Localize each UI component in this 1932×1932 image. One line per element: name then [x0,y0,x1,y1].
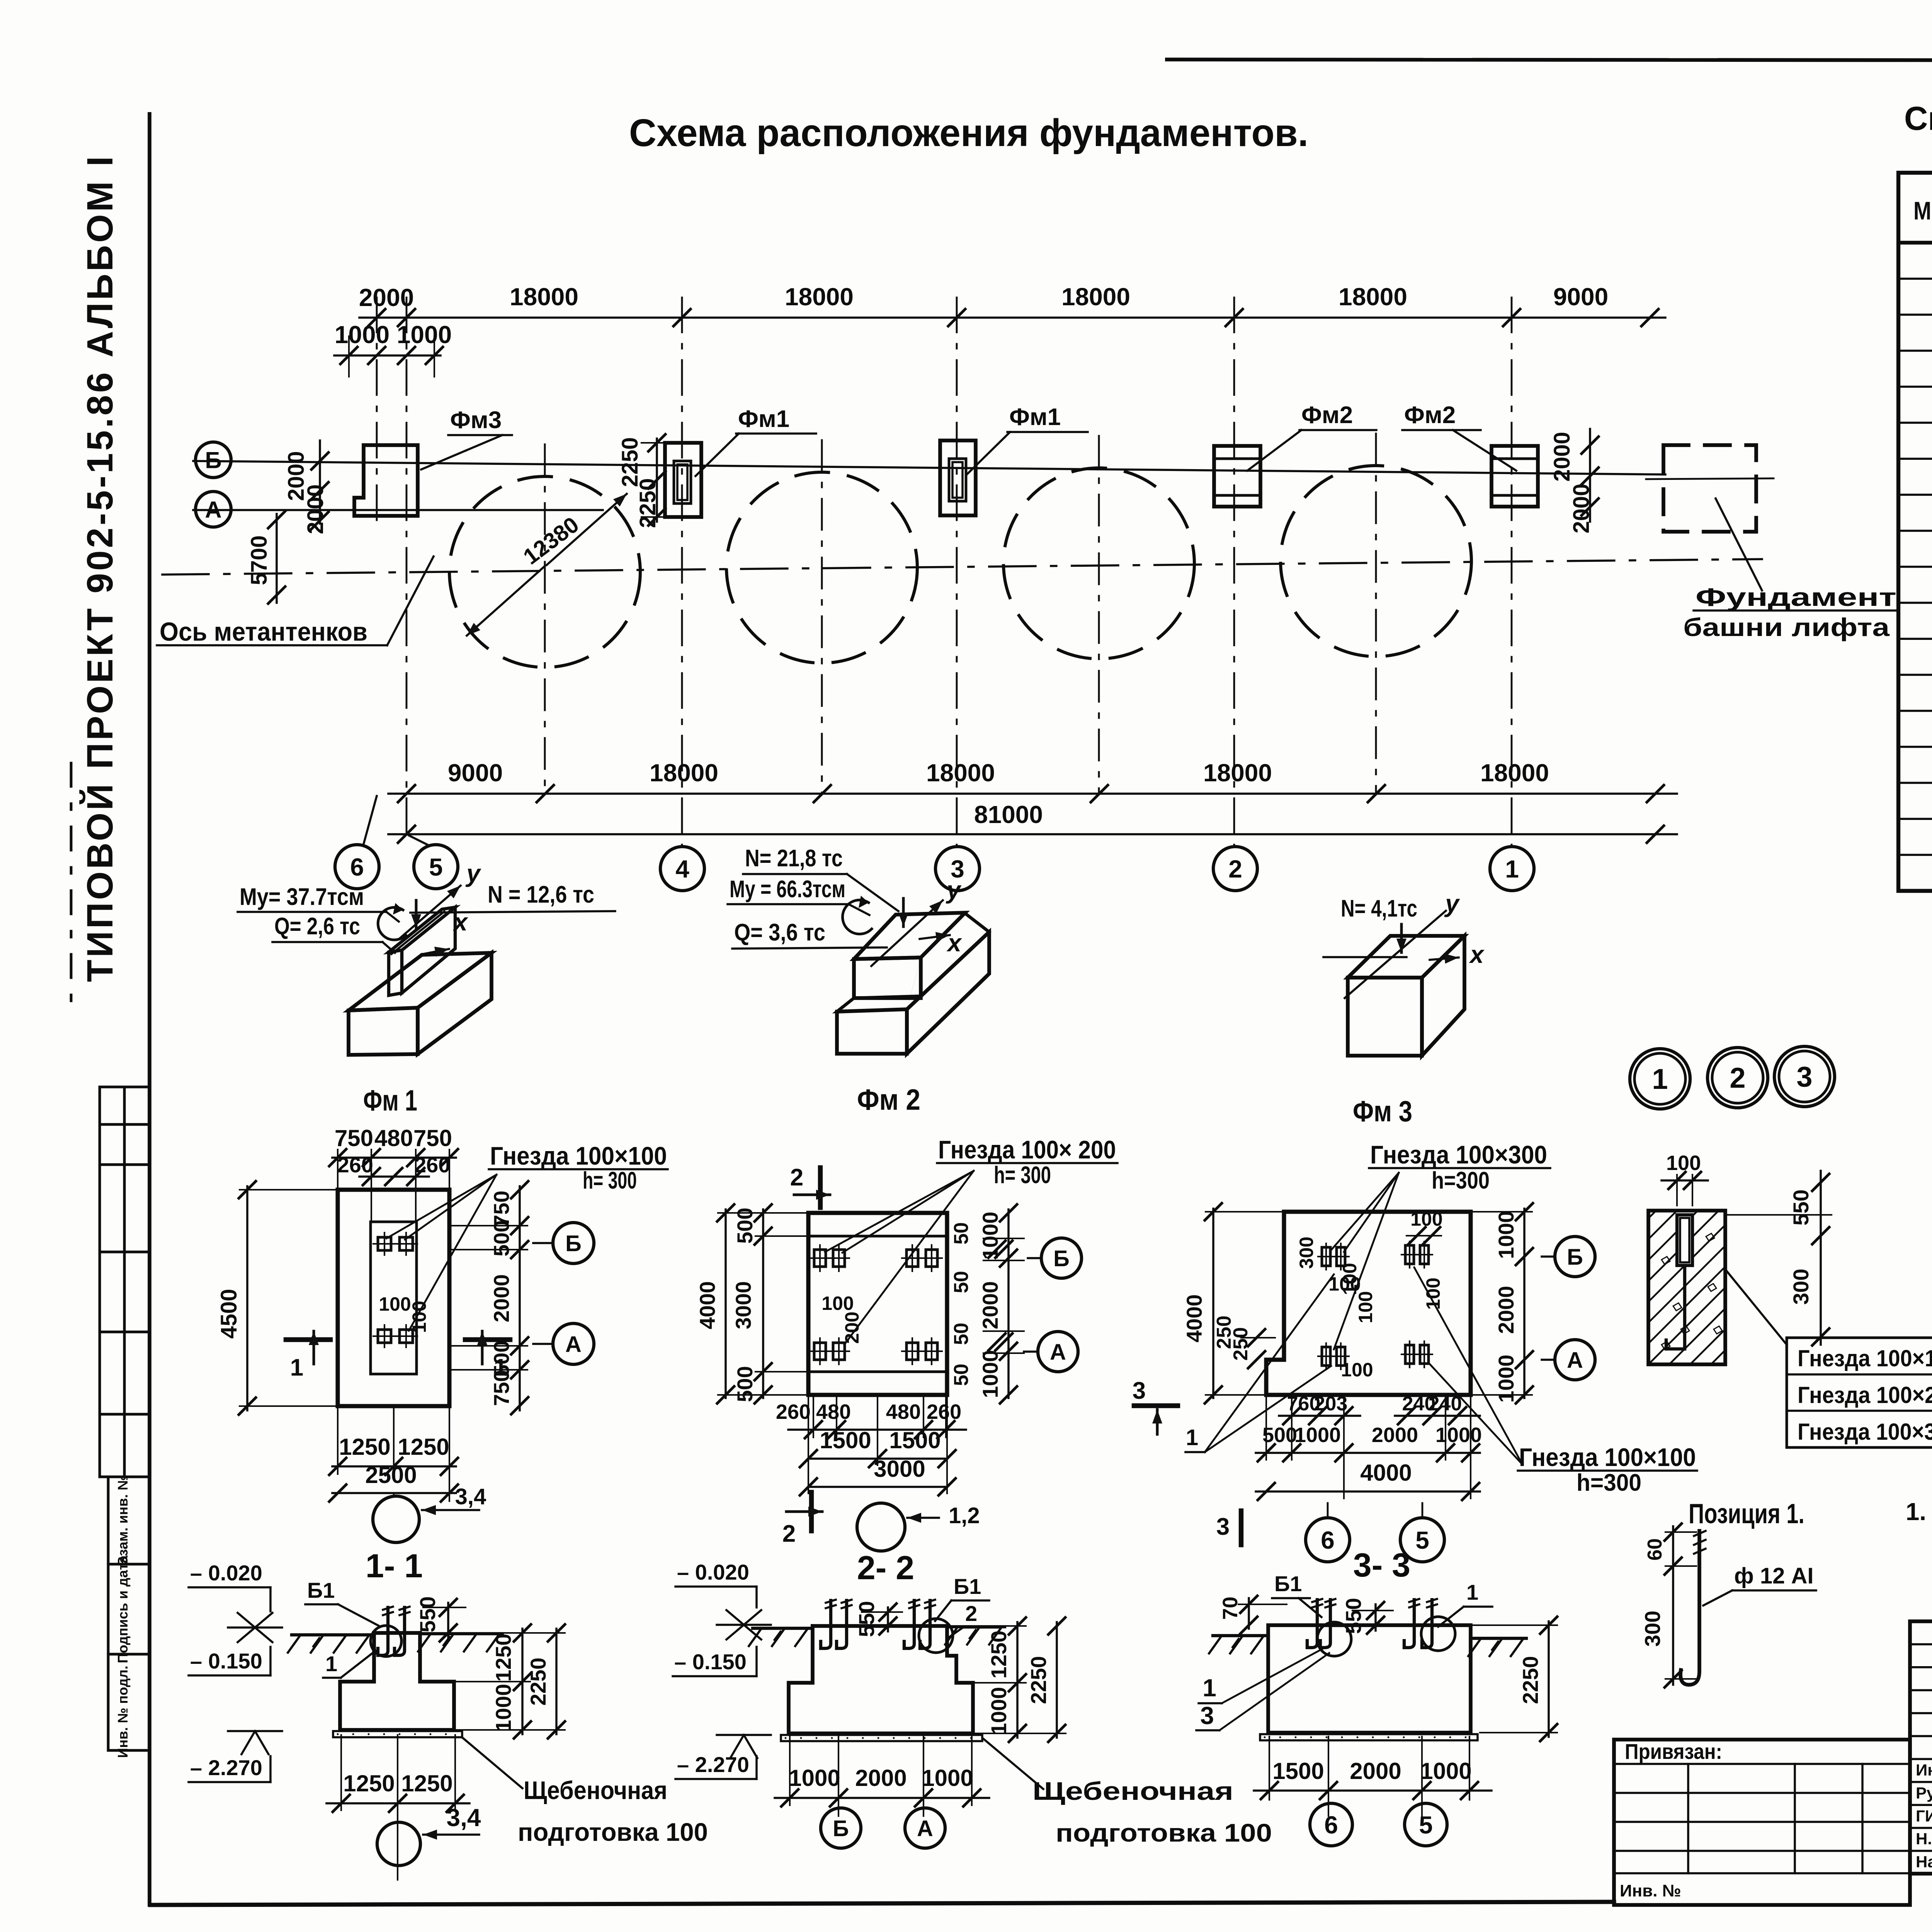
svg-text:1250: 1250 [491,1634,515,1682]
svg-text:750: 750 [413,1125,452,1151]
Fm1 bottom circle [373,1496,419,1543]
foundation Fm1 plan symbol 2 [940,440,976,515]
svg-text:1500: 1500 [820,1427,871,1453]
svg-text:18000: 18000 [1480,759,1549,787]
svg-text:Гнезда 100×100: Гнезда 100×100 [490,1141,667,1170]
isometric Fm2 stepped block [837,1009,907,1054]
svg-text:3: 3 [1216,1514,1230,1540]
svg-text:1000: 1000 [1494,1211,1518,1259]
svg-text:x: x [1469,940,1485,968]
svg-text:Фм1: Фм1 [1009,404,1061,430]
svg-text:2: 2 [965,1601,977,1626]
svg-text:2500: 2500 [365,1462,417,1488]
svg-text:– 0.020: – 0.020 [677,1560,749,1584]
svg-text:подготовка 100: подготовка 100 [518,1818,708,1846]
svg-text:– 0.150: – 0.150 [190,1649,262,1673]
section 2-2 bottom dims [789,1736,791,1805]
svg-text:1000: 1000 [922,1765,973,1791]
svg-text:А: А [917,1816,933,1841]
svg-text:Гнезда 100×300 h= 300 для 3 уз: Гнезда 100×300 h= 300 для 3 узла [1798,1419,1932,1445]
svg-text:Гнезда 100×300: Гнезда 100×300 [1370,1140,1547,1169]
svg-text:Б: Б [565,1231,582,1256]
svg-text:Гнезда 100×200 h=300 для 2 узл: Гнезда 100×200 h=300 для 2 узла [1798,1382,1932,1408]
section 3-3 bottom dims [1269,1736,1270,1800]
privyazan table [1614,1740,1910,1905]
section 3-3 axis circles [1310,1803,1352,1846]
svg-text:480: 480 [816,1400,851,1423]
svg-text:Щебеночная: Щебеночная [1032,1777,1233,1805]
svg-text:100: 100 [379,1293,411,1315]
Fm2 bottom dims [813,1395,814,1437]
section 1-1 node circle [377,1822,420,1866]
svg-text:Спецификация к схеме распол: Спецификация к схеме расположения фундам… [1904,100,1932,137]
section 3-3 foundation [1268,1625,1471,1733]
svg-text:1000: 1000 [1435,1423,1482,1447]
svg-text:Позиция 1.: Позиция 1. [1689,1498,1804,1529]
axis circle 5 [414,845,458,889]
svg-text:1250: 1250 [401,1770,452,1796]
svg-text:Подпись и дата: Подпись и дата [115,1555,131,1663]
Fm3 detail bolts [1322,1247,1330,1266]
svg-text:– 2.270: – 2.270 [190,1755,262,1780]
svg-text:5: 5 [1419,1811,1433,1839]
svg-text:1000: 1000 [978,1212,1002,1260]
svg-text:1: 1 [1652,1063,1668,1095]
svg-text:260: 260 [337,1153,373,1177]
hook dims [1665,1531,1696,1533]
svg-text:2: 2 [1228,855,1242,883]
svg-text:подготовка 100: подготовка 100 [1056,1818,1272,1847]
svg-text:60: 60 [1644,1538,1666,1561]
section 3-3 detail circles [1317,1622,1351,1656]
svg-text:100: 100 [1355,1291,1376,1323]
pos1 hatched concrete block [1648,1211,1725,1364]
svg-text:1: 1 [1505,855,1519,883]
svg-text:1: 1 [325,1651,337,1676]
svg-text:50: 50 [950,1323,973,1345]
isometric Fm1 base box [349,1008,418,1055]
svg-text:100: 100 [1422,1277,1444,1310]
Fm2 bottom circle [857,1503,905,1551]
Fm3 right dim chain [1523,1209,1526,1398]
svg-text:4000: 4000 [695,1281,719,1330]
foundation Fm3 plan symbol [354,445,418,516]
section 2-2 detail circle [919,1619,953,1653]
dims near Fm3 left [319,440,321,524]
tank circles [449,476,640,667]
axis A circle [196,492,231,527]
svg-text:1: 1 [290,1354,303,1381]
axis 2 vertical [1233,298,1235,847]
Fm2 left dims [762,1209,764,1398]
svg-text:1000: 1000 [978,1350,1002,1398]
svg-text:2250: 2250 [1518,1656,1543,1704]
svg-text:Му= 37.7тсм: Му= 37.7тсм [240,884,364,910]
svg-text:x: x [946,929,962,957]
svg-text:Б1: Б1 [954,1574,981,1599]
svg-text:260: 260 [776,1400,811,1423]
svg-text:башни лифта: башни лифта [1683,613,1890,641]
svg-text:9000: 9000 [448,759,503,787]
svg-text:N= 21,8 тс: N= 21,8 тс [745,845,843,872]
svg-text:Привязан:: Привязан: [1625,1739,1722,1764]
isometric Fm1 fin [389,950,402,995]
svg-text:9000: 9000 [1553,283,1608,311]
svg-text:480: 480 [886,1400,921,1423]
svg-text:h= 300: h= 300 [994,1162,1051,1189]
Fm1 moment arc [378,907,406,940]
foundation Fm2 plan symbol 1 [1214,446,1260,507]
svg-text:N = 12,6 тс: N = 12,6 тс [488,881,594,908]
svg-text:ГИП кон.: ГИП кон. [1916,1807,1932,1825]
svg-text:4000: 4000 [1360,1460,1412,1486]
svg-text:1250: 1250 [398,1434,449,1460]
svg-text:1500: 1500 [1272,1758,1324,1784]
Fm2 axis circles [1028,1257,1041,1259]
svg-text:– 0.150: – 0.150 [674,1650,747,1674]
svg-text:100: 100 [1341,1359,1373,1381]
section 3-3 right dim [1473,1624,1557,1626]
svg-text:2: 2 [790,1164,803,1191]
svg-text:– 2.270: – 2.270 [677,1752,749,1777]
section 1-1 right dims [502,1632,530,1634]
signature table [1910,1621,1932,1874]
section 2-2 ground [753,1627,811,1630]
axis 5 vertical [406,298,408,845]
svg-text:1000: 1000 [491,1684,515,1732]
foundation Fm2 plan symbol 2 [1492,446,1538,507]
svg-text:550: 550 [415,1596,440,1632]
section 2-2 550 dim [862,1611,902,1613]
bottom frame line [151,1902,1614,1905]
node double circles 1 2 3 [1630,1049,1690,1109]
svg-text:50: 50 [950,1271,973,1293]
Fm2 moment arc [843,900,872,934]
svg-text:2000: 2000 [489,1274,514,1323]
dims 2000 at Fm2 right [1589,429,1591,522]
Fm1 bottom dims [337,1406,338,1474]
Fm1 detail slot [371,1222,417,1374]
Fm3 axis circles [1542,1255,1554,1258]
svg-text:ф 12 АІ: ф 12 АІ [1734,1563,1814,1588]
svg-text:50: 50 [950,1364,973,1386]
plan: top dimension line [359,316,1665,319]
section 2-2 bolts [821,1600,831,1648]
svg-text:1000: 1000 [789,1765,840,1791]
svg-text:1500: 1500 [889,1427,940,1453]
svg-text:Фм 1: Фм 1 [363,1084,417,1117]
svg-text:1000: 1000 [335,321,389,349]
Fm3 left dims [1212,1209,1214,1398]
svg-text:18000: 18000 [1203,759,1272,787]
svg-text:300: 300 [1640,1611,1665,1646]
svg-text:2000: 2000 [1372,1423,1418,1447]
section 1-1 ground [292,1633,372,1636]
axis 3 vertical [956,298,958,847]
svg-text:Q= 3,6 тс: Q= 3,6 тс [734,919,825,946]
section 1-1 550 dim [423,1607,466,1608]
svg-text:5: 5 [429,853,443,881]
svg-text:4: 4 [675,855,689,883]
svg-text:3: 3 [1133,1378,1146,1404]
axis circle 4 [660,847,704,891]
plan: bottom dim line 2 (81000) [388,833,1677,835]
svg-text:500: 500 [733,1366,757,1402]
svg-text:2250: 2250 [635,478,660,528]
svg-text:y: y [946,876,962,904]
svg-text:18000: 18000 [1061,283,1130,311]
svg-text:1250: 1250 [986,1631,1011,1679]
svg-text:2: 2 [1730,1062,1745,1094]
svg-text:2250: 2250 [526,1658,550,1706]
Fm3 bottom dims [1279,1415,1360,1417]
svg-text:550: 550 [854,1601,879,1637]
axis 1 vertical [1511,298,1513,847]
svg-text:1,2: 1,2 [949,1503,980,1528]
svg-text:Б: Б [1567,1245,1583,1270]
svg-text:300: 300 [1789,1269,1813,1304]
svg-text:3: 3 [1796,1061,1812,1093]
svg-text:h= 300: h= 300 [583,1167,637,1194]
Fm3 N arrow [1400,924,1403,952]
Fm1 right dim chain [519,1186,521,1410]
svg-text:18000: 18000 [926,759,995,787]
svg-text:Фм 2: Фм 2 [857,1083,920,1116]
svg-text:1: 1 [1466,1580,1478,1604]
svg-text:2250: 2250 [1026,1656,1051,1704]
axis B horizontal [193,461,1665,474]
Fm1 y axis [400,886,461,938]
svg-text:1. В монолитных фундаментах: 1. В монолитных фундаментах принята марк… [1906,1498,1932,1526]
svg-text:Гнезда 100×100: Гнезда 100×100 [1519,1443,1696,1471]
svg-text:2000: 2000 [303,484,328,534]
svg-text:480: 480 [374,1125,413,1151]
svg-text:3- 3: 3- 3 [1353,1547,1410,1584]
svg-text:Инв. № подл.: Инв. № подл. [115,1666,131,1758]
lift tower foundation dashed [1663,445,1756,532]
svg-text:550: 550 [1341,1598,1366,1634]
axis circle 3 [935,847,980,891]
Fm1 detail bolts [378,1237,391,1250]
plan: 1000 sub-dims [334,354,440,357]
Fm1 axis circles [533,1242,553,1244]
left fold mark [70,763,73,1009]
Fm2 detail bolts [814,1250,826,1267]
hook rod f12AI [1680,1531,1699,1685]
axis circle 2 [1213,847,1257,891]
svg-text:1250: 1250 [343,1770,395,1796]
section 1-1 bottom dims [340,1735,342,1810]
svg-text:1000: 1000 [1420,1758,1471,1784]
svg-text:2000: 2000 [1494,1286,1518,1334]
svg-text:2000: 2000 [1569,483,1594,533]
section 1-1 bolts B1 [378,1607,388,1655]
Fm1 section marks 1-1 [286,1337,330,1342]
svg-text:200: 200 [841,1311,863,1344]
section 2-2 foundation profile [789,1626,973,1733]
Fm1 top dims [332,1156,456,1159]
svg-text:1- 1: 1- 1 [366,1548,423,1585]
Fm3 x axis [1430,957,1459,960]
svg-text:3: 3 [1200,1702,1214,1730]
tank axis line [162,559,1762,575]
svg-text:h=300: h=300 [1577,1469,1641,1496]
svg-text:y: y [465,859,481,887]
svg-text:1: 1 [1186,1425,1198,1450]
Fm2 y axis [871,900,943,966]
svg-text:Б1: Б1 [307,1578,335,1602]
svg-text:h=300: h=300 [1432,1167,1490,1194]
svg-text:Q= 2,6 тс: Q= 2,6 тс [274,913,360,940]
svg-text:2000: 2000 [1350,1758,1401,1784]
axis B circle [196,442,231,478]
svg-text:260: 260 [927,1400,961,1423]
svg-text:Ось метантенков: Ось метантенков [160,617,367,646]
section 1-1 detail circle [371,1626,401,1656]
Fm2 x axis [920,935,950,939]
svg-text:6: 6 [1321,1526,1335,1554]
plan: bottom dim line 1 [388,793,1677,795]
svg-text:1: 1 [1202,1674,1216,1702]
svg-text:Фундамент: Фундамент [1696,583,1896,611]
svg-text:300: 300 [1296,1236,1317,1269]
pos1 embedded channel slot [1677,1215,1692,1265]
Fm1 N arrow [415,900,418,928]
section 3-3 550 dim [1352,1610,1393,1611]
svg-text:1000: 1000 [986,1687,1011,1735]
svg-text:Рук. гр.: Рук. гр. [1916,1784,1932,1802]
axis 4 vertical [681,298,683,847]
svg-text:А: А [205,497,221,523]
svg-text:6: 6 [350,853,364,881]
svg-text:50: 50 [950,1222,973,1245]
pos1 anchor rod [1683,1265,1686,1349]
svg-text:3000: 3000 [874,1456,925,1482]
svg-text:А: А [1050,1340,1066,1365]
specification table [1898,173,1932,891]
svg-text:Б: Б [833,1816,849,1841]
dims 2250 at Fm1 [656,439,658,522]
svg-text:100: 100 [1666,1151,1701,1175]
svg-text:18000: 18000 [785,283,854,311]
svg-text:2000: 2000 [978,1281,1002,1330]
svg-text:Б: Б [205,447,221,473]
top scan strip [1167,60,1932,60]
svg-text:3,4: 3,4 [447,1804,481,1832]
svg-text:6: 6 [1324,1811,1338,1839]
svg-text:260: 260 [414,1153,450,1177]
svg-text:18000: 18000 [1338,283,1407,311]
svg-text:750: 750 [335,1125,373,1151]
Fm1 left dim 4500 [246,1186,248,1410]
axis 6 vertical [376,298,378,526]
Fm2 right dim chain [1007,1209,1010,1398]
svg-text:18000: 18000 [510,283,578,311]
section 3-3 gravel pad [1260,1734,1478,1740]
svg-text:Инженер: Инженер [1916,1761,1932,1779]
foundation Fm1 plan symbol 1 [665,443,701,517]
section 1-1 foundation profile [340,1633,454,1730]
svg-text:Фм2: Фм2 [1404,402,1456,429]
svg-text:Б: Б [1053,1246,1070,1271]
svg-text:500: 500 [489,1220,514,1256]
svg-text:5: 5 [1415,1526,1429,1554]
svg-text:Марка: Марка [1913,196,1932,225]
axis circle 1 [1490,847,1534,891]
svg-text:ТИПОВОЙ ПРОЕКТ 902-5-15.86: ТИПОВОЙ ПРОЕКТ 902-5-15.86 АЛЬБОМ I [79,154,121,982]
svg-text:5700: 5700 [247,535,272,585]
svg-text:y: y [1444,889,1460,917]
section 2-2 axis circles [821,1808,861,1848]
svg-text:2000: 2000 [1549,432,1575,481]
svg-text:4000: 4000 [1182,1294,1206,1343]
svg-text:4500: 4500 [216,1289,241,1338]
svg-text:100: 100 [408,1301,430,1333]
svg-text:– 0.020: – 0.020 [190,1561,262,1585]
svg-text:Фм1: Фм1 [738,406,789,432]
svg-text:Взам. инв. №: Взам. инв. № [115,1475,131,1566]
svg-text:Н. контр.: Н. контр. [1916,1830,1932,1848]
svg-text:3,4: 3,4 [455,1484,486,1509]
svg-text:3000: 3000 [731,1281,755,1330]
axis circle 6 [335,845,379,889]
svg-text:100: 100 [821,1293,854,1314]
svg-text:2: 2 [782,1520,796,1547]
svg-text:Фм 3: Фм 3 [1353,1095,1412,1128]
section 3-3 bolts [1307,1600,1317,1648]
Fm3 axis circles 6 5 [1327,1503,1329,1517]
svg-text:Фм3: Фм3 [450,407,502,434]
pos1 right dims [1725,1214,1832,1216]
svg-text:2- 2: 2- 2 [857,1549,914,1587]
Fm3 detail outline [1266,1212,1471,1395]
svg-text:18000: 18000 [650,759,718,787]
svg-text:Щебеночная: Щебеночная [524,1776,667,1804]
svg-text:1250: 1250 [339,1434,390,1460]
Fm1 x axis [421,949,449,954]
svg-text:Гнезда 100×100 h=300 для 1 узл: Гнезда 100×100 h=300 для 1 узла [1798,1345,1932,1371]
svg-text:81000: 81000 [974,801,1043,828]
svg-text:А: А [1567,1348,1583,1373]
svg-text:1000: 1000 [1294,1423,1341,1447]
svg-text:70: 70 [1219,1597,1242,1620]
svg-text:Инв. №: Инв. № [1620,1881,1681,1900]
Fm2 N arrow [902,898,905,927]
svg-text:N= 4,1тс: N= 4,1тс [1341,895,1417,922]
left margin stamp boxes [99,1087,101,1477]
svg-text:Фм2: Фм2 [1301,402,1353,429]
section 2-2 right dims [975,1625,1026,1627]
axis A horizontal [193,509,603,511]
pos1 dim 100 [1676,1175,1678,1206]
svg-text:203: 203 [1314,1393,1348,1415]
sheet frame left border [148,114,151,1905]
svg-text:Гнезда 100× 200: Гнезда 100× 200 [938,1135,1116,1164]
svg-text:1: 1 [494,1354,507,1381]
svg-text:550: 550 [1789,1189,1813,1225]
Fm2 detail outer [808,1213,947,1395]
pos1 legend box [1787,1338,1932,1447]
section 3-3 ground [1213,1634,1267,1637]
svg-text:1000: 1000 [397,321,452,349]
Fm1 detail outer [338,1190,449,1406]
svg-text:2000: 2000 [855,1765,906,1791]
svg-text:Схема расположения фунда: Схема расположения фундаментов. [629,111,1308,155]
section 1-1 gravel pad [333,1731,462,1737]
title block group [1614,1621,1932,1906]
Fm3 section marks 3 [1134,1403,1178,1408]
svg-text:Б1: Б1 [1274,1571,1302,1596]
